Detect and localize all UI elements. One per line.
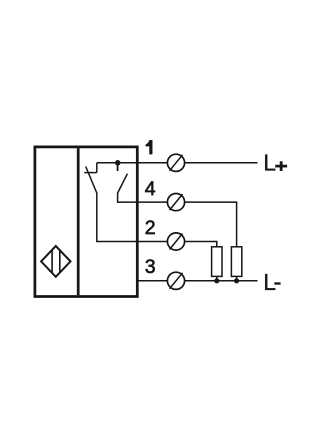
svg-text:3: 3	[145, 256, 156, 278]
svg-text:L: L	[263, 149, 276, 175]
svg-text:L: L	[263, 269, 276, 295]
svg-text:4: 4	[145, 178, 156, 200]
svg-text:2: 2	[145, 217, 156, 239]
